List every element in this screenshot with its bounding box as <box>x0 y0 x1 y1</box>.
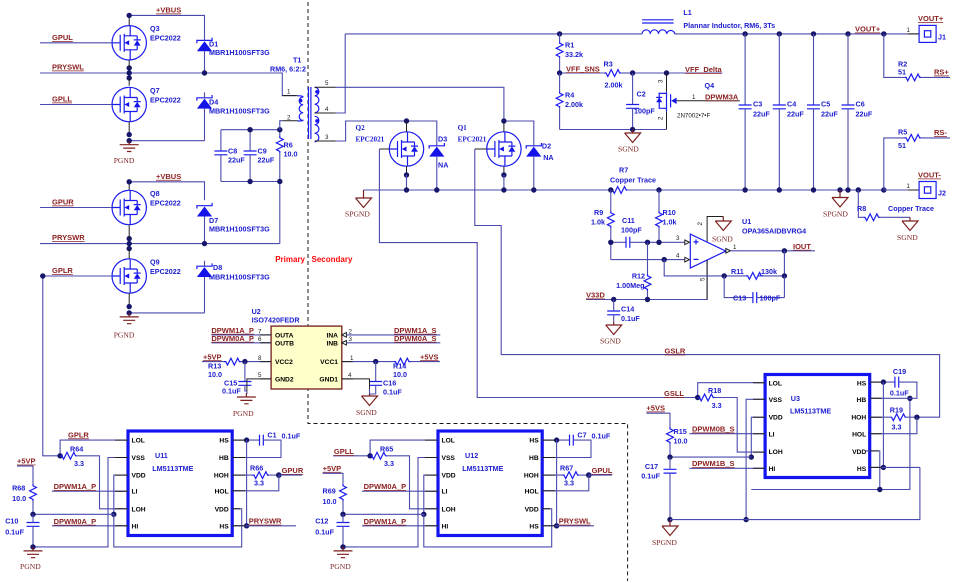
svg-text:0.1uF: 0.1uF <box>383 388 402 397</box>
wire HS top to HS bottom <box>244 440 249 528</box>
svg-text:GND2: GND2 <box>275 376 294 383</box>
capacitor C12 <box>337 514 350 549</box>
svg-text:EPC2022: EPC2022 <box>150 96 181 105</box>
wire GPLR <box>40 273 112 456</box>
wire Q1 stubs <box>475 118 507 190</box>
svg-text:SPGND: SPGND <box>652 538 677 547</box>
label DPWM1A_P (U11) <box>54 482 97 491</box>
svg-text:HS: HS <box>219 438 229 445</box>
label PRYSWL <box>52 63 84 72</box>
resistor R1 <box>556 34 563 73</box>
wire HS top to HS bottom (U12) <box>554 440 559 528</box>
label R2 51 <box>898 60 907 77</box>
wire opamp +input row <box>645 240 685 245</box>
svg-text:VDD: VDD <box>442 473 456 480</box>
svg-text:DPWM1B_S: DPWM1B_S <box>692 459 735 468</box>
svg-text:2: 2 <box>697 222 704 226</box>
svg-text:1.00Meg: 1.00Meg <box>616 281 644 290</box>
svg-text:VCC2: VCC2 <box>275 359 293 366</box>
diode D2 <box>504 121 541 190</box>
label +VBUS <box>156 6 181 15</box>
label RS+ <box>934 68 949 77</box>
svg-text:U11: U11 <box>155 451 168 460</box>
label R13 10.0 <box>208 362 222 380</box>
svg-text:22uF: 22uF <box>856 110 873 119</box>
wire GSLR from Q1 gate <box>475 149 940 417</box>
wire VDD-HB rail (U3) <box>751 396 912 493</box>
svg-text:Copper Trace: Copper Trace <box>610 176 656 185</box>
wire VFF_SNS row <box>557 70 604 75</box>
wire T1 pin2 to snubber <box>280 121 283 130</box>
pin stubs U2 <box>260 335 353 379</box>
svg-text:1.0k: 1.0k <box>591 218 605 227</box>
label Q3 EPC2022 <box>150 24 181 43</box>
wire HOL to GPUR <box>232 475 279 491</box>
svg-text:R65: R65 <box>380 444 393 453</box>
resistor R6 <box>276 130 283 182</box>
label Secondary <box>312 255 353 264</box>
label R67 3.3 <box>560 464 574 488</box>
capacitor C13 <box>724 276 784 303</box>
wire GND1 down <box>342 379 376 394</box>
svg-text:1: 1 <box>733 244 737 251</box>
svg-text:Q4: Q4 <box>705 81 715 90</box>
ground SPGND (output) <box>823 190 848 219</box>
svg-text:VDD: VDD <box>769 415 783 422</box>
label GPUL (U12) <box>589 466 613 475</box>
svg-text:2.00k: 2.00k <box>565 100 583 109</box>
svg-text:SGND: SGND <box>897 233 918 242</box>
label +5VS (U2) <box>420 352 439 361</box>
resistor R68 <box>30 466 37 514</box>
resistor R9 <box>607 190 614 260</box>
svg-text:22uF: 22uF <box>753 110 770 119</box>
svg-text:+5VP: +5VP <box>17 457 36 466</box>
svg-text:HS: HS <box>857 381 867 388</box>
ground PGND (Q9) <box>114 313 139 340</box>
resistor R11 feedback <box>664 251 787 279</box>
svg-text:HI: HI <box>769 466 776 473</box>
pin 3 <box>676 235 680 242</box>
svg-text:PGND: PGND <box>114 330 135 339</box>
svg-text:C9: C9 <box>258 147 267 156</box>
svg-text:3.3: 3.3 <box>564 479 574 488</box>
svg-text:LI: LI <box>769 431 775 438</box>
svg-text:SPGND: SPGND <box>823 210 848 219</box>
svg-text:Q2: Q2 <box>356 124 366 132</box>
svg-text:GND1: GND1 <box>319 376 338 383</box>
label V33D <box>586 291 605 300</box>
label T1 RM6 6:2:2 <box>270 56 306 74</box>
label GPLL <box>52 95 72 104</box>
svg-text:SGND: SGND <box>712 235 733 244</box>
inductor L1 <box>642 20 675 34</box>
pin 3 <box>658 79 665 83</box>
svg-text:HS: HS <box>529 438 539 445</box>
diode D4 <box>197 92 212 140</box>
svg-text:D8: D8 <box>213 263 222 272</box>
svg-text:0.1uF: 0.1uF <box>592 431 611 440</box>
wire DPWM1B_S to HI <box>689 467 765 469</box>
label U1 OPA365AIDBVRG4 <box>742 217 806 236</box>
svg-text:C14: C14 <box>621 305 634 314</box>
svg-text:3.3: 3.3 <box>384 459 394 468</box>
svg-text:VDD: VDD <box>852 449 866 456</box>
wire +VBUS (upper) <box>127 13 205 35</box>
label R15 10.0 <box>674 427 688 445</box>
pin 1 <box>287 89 291 96</box>
svg-text:3.3: 3.3 <box>712 401 722 410</box>
svg-text:SGND: SGND <box>356 408 377 417</box>
svg-text:4: 4 <box>325 106 329 113</box>
label VFF_SNS <box>566 64 600 73</box>
svg-text:NA: NA <box>438 161 448 170</box>
pin 2 <box>697 222 704 226</box>
label C13 100pF <box>733 294 781 303</box>
resistor R18 <box>698 394 765 452</box>
svg-text:5: 5 <box>700 277 707 281</box>
svg-text:EPC2021: EPC2021 <box>356 136 385 144</box>
svg-text:DPWM1A_P: DPWM1A_P <box>364 517 407 526</box>
svg-text:LM5113TME: LM5113TME <box>790 406 831 415</box>
resistor R8 <box>858 190 910 221</box>
svg-text:IOUT: IOUT <box>793 242 811 251</box>
svg-text:VCC1: VCC1 <box>320 359 338 366</box>
label C1 0.1uF <box>267 431 300 441</box>
label C14 0.1uF <box>621 305 640 323</box>
wire opamp -input row <box>611 257 685 262</box>
label DPWM0A_P (U12) <box>364 482 407 491</box>
label Primary <box>275 255 305 264</box>
svg-text:Q1: Q1 <box>458 124 468 132</box>
wire HOL to GPUL <box>542 475 589 491</box>
svg-text:VDD: VDD <box>132 473 146 480</box>
wire snubber bottom rail to PRYSWR <box>221 179 283 244</box>
svg-text:DPWM1A_P: DPWM1A_P <box>54 482 97 491</box>
svg-text:R4: R4 <box>565 91 574 100</box>
svg-text:1: 1 <box>692 94 696 101</box>
wire VOUT+ top rail <box>345 31 919 36</box>
svg-text:5: 5 <box>258 372 262 379</box>
svg-text:GPLR: GPLR <box>52 266 73 275</box>
svg-text:0.1uF: 0.1uF <box>641 471 660 480</box>
wire VFF bottom rail <box>560 127 667 132</box>
svg-text:+5VS: +5VS <box>420 352 439 361</box>
ground SGND (U1) <box>712 217 733 244</box>
svg-text:C17: C17 <box>645 462 658 471</box>
label U2 ISO7420FEDR <box>252 307 301 325</box>
label RS- <box>934 128 947 137</box>
svg-text:22uF: 22uF <box>787 110 804 119</box>
svg-text:C8: C8 <box>228 147 237 156</box>
label PRYSWL (U12) <box>559 517 591 526</box>
svg-text:0.1uF: 0.1uF <box>222 387 241 396</box>
svg-text:1.0k: 1.0k <box>663 218 677 227</box>
label R19 3.3 <box>890 405 903 431</box>
svg-text:L1: L1 <box>683 8 691 17</box>
resistor R5 <box>884 135 950 191</box>
wire DPWM1A_P to HI (U12) <box>362 525 438 527</box>
pin 8 <box>258 355 262 362</box>
resistor R4 <box>556 73 563 130</box>
svg-text:51: 51 <box>898 141 906 150</box>
label C10 0.1uF <box>5 517 24 537</box>
wire T1 pin3 to Q2 drain <box>336 118 437 145</box>
label C5 22uF <box>821 100 838 119</box>
label +5VP (U11) <box>17 457 36 466</box>
wire T1 pin5 to Q1 drain <box>336 87 504 121</box>
capacitor C8 <box>214 130 227 182</box>
svg-text:10.0: 10.0 <box>208 370 222 379</box>
wire DPWM0A_P to LI (U12) <box>362 490 438 492</box>
svg-text:22uF: 22uF <box>821 110 838 119</box>
label R18 3.3 <box>708 386 722 410</box>
svg-text:OPA365AIDBVRG4: OPA365AIDBVRG4 <box>742 227 806 236</box>
label GPLR (U11) <box>68 430 89 439</box>
label GSLR <box>665 347 686 356</box>
svg-text:10.0: 10.0 <box>674 437 688 446</box>
svg-text:4: 4 <box>348 372 352 379</box>
label Copper Trace (R8) <box>888 204 934 213</box>
capacitor C4 <box>773 34 786 190</box>
capacitor C11 <box>608 237 647 248</box>
svg-text:OUTA: OUTA <box>275 332 294 339</box>
wire VFF_Delta row <box>630 70 722 75</box>
svg-text:MBR1H100SFT3G: MBR1H100SFT3G <box>209 225 270 234</box>
svg-text:Secondary: Secondary <box>312 255 353 264</box>
gate driver U11 LM5113TME <box>128 431 232 536</box>
svg-text:LI: LI <box>132 489 138 496</box>
svg-text:HS: HS <box>857 466 867 473</box>
svg-text:2: 2 <box>349 328 353 335</box>
transistor Q3 <box>112 26 146 60</box>
label R66 3.3 <box>250 464 264 488</box>
svg-text:U12: U12 <box>465 451 478 460</box>
svg-text:ISO7420FEDR: ISO7420FEDR <box>252 316 301 325</box>
svg-text:8: 8 <box>258 355 262 362</box>
wire GPLL to LOL <box>333 440 438 458</box>
svg-text:R6: R6 <box>284 141 293 150</box>
svg-text:R15: R15 <box>674 427 687 436</box>
capacitor C5 <box>807 34 820 190</box>
pin stubs U11 <box>115 440 245 526</box>
svg-text:V33D: V33D <box>586 291 605 300</box>
label GPLR <box>52 266 73 275</box>
op-amp U1 <box>685 217 731 300</box>
svg-text:R12: R12 <box>632 272 645 281</box>
label VOUT+ (J1) <box>918 14 944 23</box>
resistor R2 <box>884 34 950 81</box>
svg-text:PGND: PGND <box>114 156 135 165</box>
svg-text:HOH: HOH <box>851 415 866 422</box>
svg-text:2: 2 <box>658 116 665 120</box>
svg-text:C5: C5 <box>821 100 830 109</box>
svg-text:1: 1 <box>287 89 291 96</box>
pin 4 <box>676 253 680 260</box>
svg-text:GPLL: GPLL <box>52 95 72 104</box>
label D8 MBR1H100SFT3G <box>209 263 270 282</box>
svg-text:2N7002•7•F: 2N7002•7•F <box>677 113 710 120</box>
pin 6 <box>258 336 262 343</box>
svg-text:D2: D2 <box>542 142 551 151</box>
label DPWM1A_P (U12) <box>364 517 407 526</box>
svg-text:NA: NA <box>543 153 553 162</box>
label Q1 EPC2021 <box>458 124 487 144</box>
label DPWM1A_S <box>394 326 437 335</box>
capacitor C7 <box>542 435 591 458</box>
diode D8 <box>197 261 212 313</box>
svg-text:U3: U3 <box>791 394 800 403</box>
label R5 51 <box>898 128 907 151</box>
label C9 22uF <box>258 147 275 165</box>
label D7 MBR1H100SFT3G <box>209 216 270 234</box>
svg-text:EPC2022: EPC2022 <box>150 34 181 43</box>
label D2 NA <box>542 142 554 163</box>
svg-text:SPGND: SPGND <box>345 210 370 219</box>
ground SGND (C2) <box>618 130 641 154</box>
svg-text:C12: C12 <box>315 517 328 526</box>
wire DPWM0A_P to HI <box>52 525 128 527</box>
pin 1 <box>733 244 737 251</box>
label U11 LM5113TME <box>152 451 193 473</box>
svg-text:HB: HB <box>219 455 229 462</box>
label R4 2.00k <box>565 91 583 110</box>
ground SGND (C14) <box>600 322 622 346</box>
pin 5 <box>700 277 707 281</box>
svg-text:HOL: HOL <box>525 489 539 496</box>
ground SGND (U2) <box>356 394 378 417</box>
ground PGND (Q7) <box>114 141 139 166</box>
svg-text:GPLL: GPLL <box>334 447 354 456</box>
label Q4 <box>705 81 715 90</box>
label VFF_Delta <box>685 65 723 74</box>
svg-text:+5VP: +5VP <box>203 352 222 361</box>
svg-text:3: 3 <box>658 79 665 83</box>
label U3 LM5113TME <box>790 394 831 416</box>
wire +5VP rail (U11) <box>30 512 114 517</box>
svg-text:0.1uF: 0.1uF <box>5 528 24 537</box>
svg-text:LOH: LOH <box>132 506 146 513</box>
svg-text:+5VS: +5VS <box>646 404 665 413</box>
svg-text:INB: INB <box>326 340 338 347</box>
wire INB DPWM0A_S <box>342 341 441 346</box>
svg-text:PRYSWL: PRYSWL <box>52 63 84 72</box>
svg-text:VOUT+: VOUT+ <box>918 14 944 23</box>
transistor Q9 <box>112 259 146 293</box>
svg-text:R64: R64 <box>70 444 83 453</box>
wire VSS to pgnd rail <box>33 458 128 547</box>
wire HOL to R19 <box>870 417 917 434</box>
pin 4 <box>348 372 352 379</box>
resistor R66 <box>232 472 281 479</box>
resistor R15 <box>667 427 674 457</box>
label Q8 EPC2022 <box>150 189 181 208</box>
svg-text:Q3: Q3 <box>150 24 160 33</box>
label R6 10.0 <box>284 141 298 159</box>
pin 2 <box>287 115 291 122</box>
label D3 NA <box>438 135 448 170</box>
svg-text:130k: 130k <box>761 267 777 276</box>
capacitor C14 <box>607 300 620 323</box>
svg-text:EPC2021: EPC2021 <box>458 136 487 144</box>
svg-text:1: 1 <box>907 27 911 34</box>
svg-text:2.00k: 2.00k <box>605 81 623 90</box>
svg-text:OUTB: OUTB <box>275 340 294 347</box>
svg-text:HOH: HOH <box>524 473 539 480</box>
wire DPWM1A_P to LI <box>52 490 128 492</box>
svg-text:C2: C2 <box>637 90 646 99</box>
resistor R65 <box>370 452 438 508</box>
label C6 22uF <box>856 100 873 119</box>
svg-text:0.1uF: 0.1uF <box>282 431 301 440</box>
svg-text:HB: HB <box>529 455 539 462</box>
svg-text:0.1uF: 0.1uF <box>315 528 334 537</box>
svg-text:3: 3 <box>325 134 329 141</box>
resistor R10 <box>656 190 663 242</box>
svg-text:R11: R11 <box>731 267 744 276</box>
wire OUTA DPWM1A_P <box>211 334 271 336</box>
label R14 10.0 <box>393 362 407 380</box>
pin 4 <box>325 106 329 113</box>
transformer T1 <box>282 87 335 142</box>
wire +5VP to VCC2 <box>202 358 271 365</box>
svg-text:LOH: LOH <box>442 506 456 513</box>
gate driver U3 LM5113TME <box>765 375 870 478</box>
connector J2 <box>884 182 946 199</box>
wire HS bottom PRYSWR <box>232 525 296 527</box>
svg-text:EPC2022: EPC2022 <box>150 199 181 208</box>
capacitor C9 <box>244 130 257 182</box>
svg-text:100pF: 100pF <box>760 294 781 303</box>
svg-text:GPLR: GPLR <box>68 430 89 439</box>
wire GSLL to LOL <box>695 383 765 400</box>
wire T1 pin4 to output rail <box>336 34 346 113</box>
svg-text:RM6, 6:2:2: RM6, 6:2:2 <box>270 65 306 74</box>
svg-text:MBR1H100SFT3G: MBR1H100SFT3G <box>209 107 270 116</box>
ground PGND (U11) <box>20 547 43 571</box>
svg-text:3.3: 3.3 <box>74 459 84 468</box>
svg-text:100pF: 100pF <box>634 107 655 116</box>
label L1 Plannar Inductor <box>683 8 775 30</box>
svg-text:MBR1H100SFT3G: MBR1H100SFT3G <box>209 273 270 282</box>
svg-text:R67: R67 <box>560 464 573 473</box>
svg-text:MBR1H100SFT3G: MBR1H100SFT3G <box>209 48 270 57</box>
capacitor C10 <box>27 514 40 549</box>
svg-text:1: 1 <box>350 355 354 362</box>
capacitor C19 <box>870 377 917 399</box>
svg-text:R66: R66 <box>250 464 263 473</box>
wire PRYSWL <box>40 60 296 96</box>
pin 3 <box>349 336 353 343</box>
wire VDD to +5VS (U3) <box>749 417 766 460</box>
svg-text:HS: HS <box>529 523 539 530</box>
svg-text:DPWM0B_S: DPWM0B_S <box>692 425 735 434</box>
svg-text:SGND: SGND <box>600 337 621 346</box>
ground PGND (U2) <box>233 393 256 418</box>
svg-text:DPWM0A_P: DPWM0A_P <box>211 334 254 343</box>
wire GPUL <box>40 42 112 44</box>
wire INA DPWM1A_S <box>342 333 441 338</box>
label R8 <box>857 204 866 213</box>
ground PGND (U12) <box>330 547 353 571</box>
svg-text:10.0: 10.0 <box>323 497 337 506</box>
svg-text:C1: C1 <box>267 431 276 440</box>
connector J1 <box>907 25 946 42</box>
svg-text:PGND: PGND <box>330 562 351 571</box>
wire +5VP rail (U12) <box>340 512 424 517</box>
svg-text:GPUL: GPUL <box>592 466 613 475</box>
svg-text:C16: C16 <box>383 378 396 387</box>
